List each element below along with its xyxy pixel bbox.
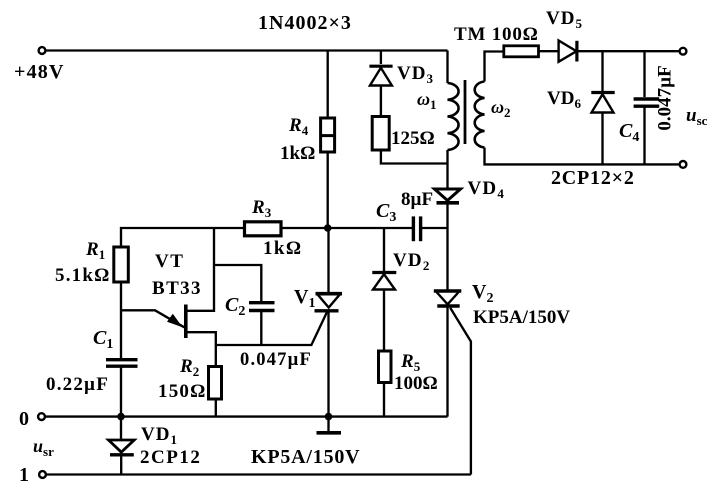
wire C4 branch upper	[643, 51, 645, 97]
wire transformer primary top	[446, 51, 448, 84]
diode VD5	[559, 41, 577, 62]
wire R2 to 0 rail	[215, 399, 217, 417]
wire VD6 branch upper	[601, 51, 603, 91]
diode VD2	[372, 273, 396, 290]
diode VD3	[369, 66, 392, 116]
wire 0 rail	[45, 415, 448, 417]
capacitor C3	[413, 216, 420, 241]
node +48V terminal	[39, 47, 46, 54]
svg-text:0.047µF: 0.047µF	[240, 350, 312, 370]
wire VD6 branch lower	[601, 113, 603, 165]
svg-text:5.1kΩ: 5.1kΩ	[55, 265, 111, 286]
thyristor V2	[434, 291, 462, 306]
svg-text:1: 1	[19, 464, 29, 486]
node R3 junction	[324, 224, 332, 232]
wire V2 cathode to 0 rail	[446, 306, 448, 417]
svg-text:1kΩ: 1kΩ	[263, 238, 302, 259]
wire VD1 anode lead	[120, 417, 122, 439]
ground	[317, 417, 342, 433]
wire VD1 cathode lead	[120, 455, 122, 475]
node 1 terminal	[39, 471, 46, 478]
resistor R5	[379, 351, 392, 383]
node C1 rail junction	[117, 413, 125, 421]
wire top rail +48V	[46, 49, 448, 51]
wire transformer primary lower	[446, 150, 448, 189]
svg-text:0.047µF: 0.047µF	[655, 65, 676, 130]
svg-text:125Ω: 125Ω	[391, 128, 435, 149]
resistor R4	[321, 118, 335, 152]
svg-text:BT33: BT33	[152, 278, 202, 299]
transformer winding w2	[475, 82, 485, 148]
wire 1 rail	[46, 473, 471, 475]
svg-text:8µF: 8µF	[401, 189, 433, 210]
wire R3 row	[121, 228, 245, 248]
wire secondary bottom lead	[485, 148, 680, 165]
diode VD6	[591, 93, 614, 113]
svg-text:2CP12×2: 2CP12×2	[551, 167, 635, 189]
diode VD4	[435, 189, 461, 203]
svg-text:0.22µF: 0.22µF	[46, 374, 109, 395]
thyristor V1	[315, 294, 343, 311]
transistor VT base bar	[184, 305, 188, 339]
wire secondary top lead	[485, 52, 504, 82]
wire R3 to node	[281, 227, 328, 229]
wire C4 branch lower	[643, 106, 645, 164]
svg-text:150Ω: 150Ω	[158, 381, 207, 402]
wire R4 branch upper	[327, 51, 329, 119]
resistor TM 100ohm	[504, 46, 539, 57]
node V1 rail junction	[325, 413, 333, 421]
wire C2 bottom lead	[260, 311, 262, 346]
node 0 terminal	[38, 413, 45, 420]
svg-text:TM 100Ω: TM 100Ω	[454, 24, 539, 45]
wire R1 to C1	[120, 282, 122, 358]
capacitor C2	[249, 303, 275, 311]
transistor VT emitter arrow	[167, 314, 183, 327]
resistor R3	[245, 222, 282, 236]
svg-text:KP5A/150V: KP5A/150V	[473, 307, 570, 328]
wire V1 anode	[327, 228, 329, 292]
svg-text:KP5A/150V: KP5A/150V	[251, 446, 360, 468]
capacitor C1	[106, 360, 138, 367]
svg-text:100Ω: 100Ω	[394, 373, 438, 394]
wire VT B2 lead	[187, 228, 214, 311]
wire VD4 to C3 junction	[446, 203, 448, 290]
svg-text:VT: VT	[155, 251, 184, 272]
wire node to C3	[328, 227, 414, 229]
wire VD3 branch upper	[380, 51, 382, 65]
svg-text:1N4002×3: 1N4002×3	[258, 12, 352, 34]
diode VD1	[109, 440, 135, 455]
wire R4 branch lower	[327, 152, 329, 229]
wire VD5 to output terminal	[577, 50, 680, 52]
wire gate row to V1	[216, 312, 327, 345]
wire V2 gate	[450, 308, 471, 475]
node output terminal bottom	[680, 161, 687, 168]
wire VD2 to R5	[383, 290, 385, 352]
svg-text:1kΩ: 1kΩ	[280, 143, 315, 164]
svg-text:2CP12: 2CP12	[140, 447, 201, 468]
svg-text:0: 0	[19, 408, 29, 430]
wire R5 to 0 rail	[383, 383, 385, 417]
wire C2 top branch	[214, 265, 261, 301]
capacitor C4	[634, 99, 660, 106]
wire VT B1 lead	[187, 332, 216, 366]
resistor R1	[114, 247, 129, 282]
node output terminal top	[680, 48, 687, 55]
resistor 125ohm	[372, 117, 389, 151]
transformer winding w1	[448, 83, 459, 150]
resistor R2	[209, 367, 222, 400]
wire V1 cathode to 0 rail	[327, 311, 329, 417]
wire C1 to 0 rail	[120, 366, 122, 416]
wire 100ohm to VD5	[539, 50, 559, 52]
wire VD2 branch upper	[383, 228, 385, 271]
wire emitter of VT	[121, 310, 184, 327]
transformer core	[464, 80, 467, 144]
wire C3 to VD4 line	[421, 227, 448, 229]
svg-text:+48V: +48V	[14, 61, 65, 83]
wire VD3 branch lower to transformer	[381, 150, 448, 164]
